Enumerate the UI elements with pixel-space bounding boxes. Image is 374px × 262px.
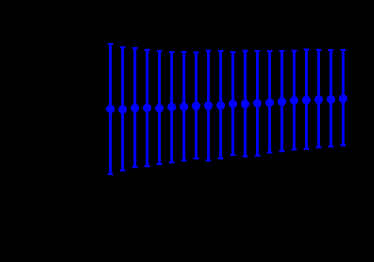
errorbar point 2 xyxy=(118,47,127,170)
errorbar point 12 xyxy=(241,51,250,157)
errorbar point 14 xyxy=(265,51,274,152)
errorbar point 11 xyxy=(229,52,238,155)
errorbar point 4 xyxy=(143,50,152,166)
errorbar point 6 xyxy=(167,52,176,162)
errorbar point 10 xyxy=(216,51,225,159)
errorbar point 8 xyxy=(192,53,201,159)
errorbar point 1 xyxy=(106,44,115,174)
errorbar point 17 xyxy=(302,50,311,149)
errorbar point 13 xyxy=(253,51,262,156)
errorbar point 19 xyxy=(327,50,336,147)
errorbar point 20 xyxy=(339,50,348,145)
errorbar point 18 xyxy=(314,50,323,147)
errorbar point 5 xyxy=(155,51,164,164)
errorbar point 16 xyxy=(290,51,299,150)
errorbar point 7 xyxy=(180,52,189,160)
errorbar point 9 xyxy=(204,51,213,161)
errorbar point 3 xyxy=(131,48,140,167)
errorbar point 15 xyxy=(278,51,287,151)
